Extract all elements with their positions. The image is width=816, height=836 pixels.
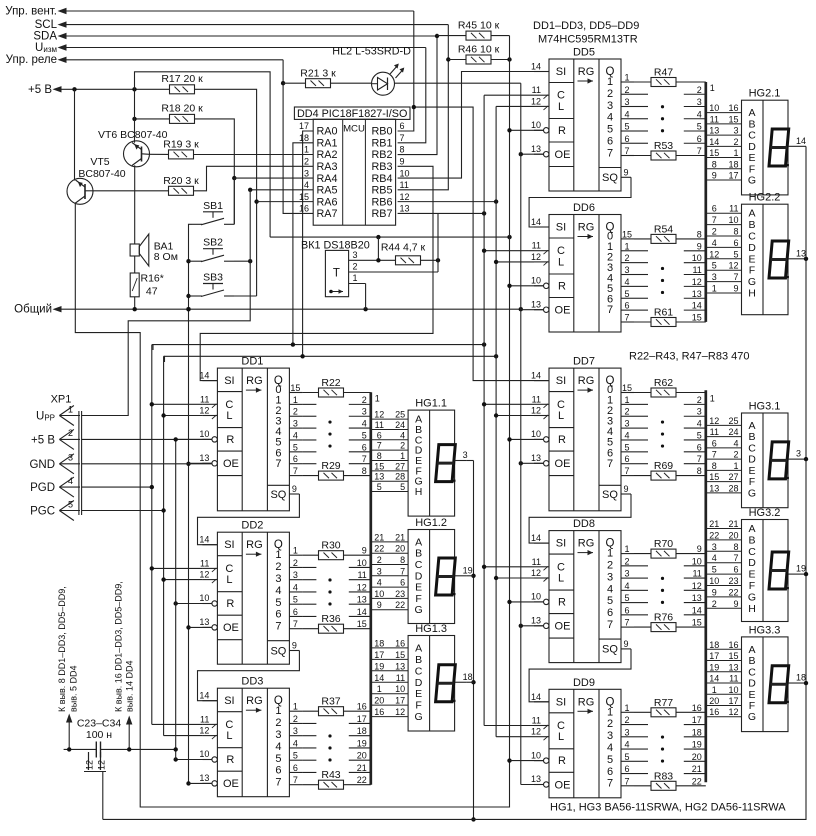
svg-text:R17 20 к: R17 20 к: [161, 73, 203, 85]
svg-text:HG3.1: HG3.1: [749, 401, 781, 413]
resistor R16* 47: [130, 273, 164, 298]
wire R tap: [176, 438, 212, 440]
svg-text:3: 3: [712, 542, 717, 552]
wire Q row stub: [634, 614, 648, 616]
wire segment: [706, 550, 742, 552]
svg-text:3: 3: [607, 100, 613, 112]
svg-text:2: 2: [304, 157, 309, 167]
wire HG1.1 common: [466, 460, 473, 462]
svg-text:8: 8: [697, 466, 702, 476]
wire Q row stub: [634, 130, 648, 132]
capacitors C23-C34 100н: [64, 718, 178, 772]
wire +5V pin to DD1 R: [82, 438, 212, 440]
wire Q row stub: [634, 760, 648, 762]
svg-text:7: 7: [624, 466, 629, 476]
svg-text:SI: SI: [556, 375, 566, 387]
svg-text:1: 1: [275, 549, 281, 561]
wire OE tap: [521, 462, 544, 464]
svg-text:A: A: [415, 642, 422, 654]
svg-text:1: 1: [733, 461, 738, 471]
svg-text:7: 7: [275, 621, 281, 633]
svg-text:7: 7: [607, 304, 613, 316]
svg-text:C: C: [557, 90, 565, 102]
svg-text:RB4: RB4: [371, 173, 392, 185]
wire +5V line: [61, 88, 170, 90]
svg-text:C23–C34: C23–C34: [77, 718, 122, 730]
svg-text:F: F: [749, 700, 755, 712]
wire common pin: [788, 145, 800, 147]
svg-text:3: 3: [733, 126, 738, 136]
svg-text:12: 12: [709, 249, 719, 259]
wire common pin: [455, 460, 467, 462]
resistor R22: [319, 388, 344, 397]
svg-text:1: 1: [304, 145, 309, 155]
svg-text:3: 3: [377, 566, 382, 576]
svg-text:D: D: [748, 454, 756, 466]
svg-text:12: 12: [199, 406, 209, 416]
wire OE tap: [521, 784, 544, 786]
wire R tap: [510, 601, 544, 603]
svg-text:8: 8: [733, 542, 738, 552]
svg-text:8: 8: [712, 159, 717, 169]
wire RB6 to L bus: [398, 201, 497, 203]
svg-text:4: 4: [697, 419, 702, 429]
svg-text:3: 3: [463, 450, 468, 460]
wire RA1 to C rail: [153, 143, 313, 350]
svg-text:9: 9: [697, 544, 702, 554]
svg-text:R16*: R16*: [141, 273, 164, 285]
svg-text:11: 11: [532, 241, 541, 251]
wire Q row stub: [302, 771, 316, 773]
svg-text:5: 5: [400, 482, 405, 492]
wire SB1 to RA4: [233, 223, 235, 225]
svg-text:D: D: [748, 678, 756, 690]
svg-text:17: 17: [357, 714, 367, 724]
svg-text:22: 22: [395, 600, 405, 610]
svg-text:1: 1: [68, 404, 73, 414]
svg-text:18: 18: [709, 640, 719, 650]
svg-text:DD6: DD6: [573, 202, 595, 214]
svg-text:RA4: RA4: [317, 173, 338, 185]
svg-text:13: 13: [531, 774, 541, 784]
svg-text:D: D: [748, 557, 756, 569]
svg-text:8: 8: [400, 555, 405, 565]
svg-text:3: 3: [697, 407, 702, 417]
svg-text:C: C: [415, 559, 423, 571]
wire Q row stub: [634, 577, 648, 579]
wire segment: [371, 491, 408, 493]
svg-text:OE: OE: [555, 305, 571, 317]
wire segment: [371, 597, 408, 599]
wire L tap: [496, 415, 534, 417]
wire Q row stub: [302, 403, 316, 405]
svg-text:21: 21: [692, 764, 702, 774]
svg-text:2: 2: [712, 599, 717, 609]
wire +5V to R18: [135, 118, 170, 120]
resistor R61: [651, 317, 676, 326]
svg-text:SI: SI: [556, 222, 566, 234]
svg-text:10: 10: [531, 276, 541, 286]
svg-text:C: C: [748, 231, 756, 243]
svg-text:3: 3: [796, 449, 801, 459]
wire VT5 base to R20: [93, 190, 169, 192]
svg-text:4: 4: [304, 180, 309, 190]
wire C tap: [484, 94, 534, 96]
svg-text:7: 7: [607, 619, 613, 631]
ellipsis dots: [661, 577, 664, 580]
wire R19 to RA2: [194, 154, 314, 156]
svg-text:R18 20 к: R18 20 к: [161, 103, 203, 115]
svg-text:3: 3: [293, 726, 298, 736]
svg-text:6: 6: [400, 121, 405, 131]
svg-text:10: 10: [199, 749, 209, 759]
wire segment: [371, 658, 408, 660]
wire R tap: [176, 759, 212, 761]
svg-text:1: 1: [353, 273, 358, 283]
svg-text:R22–R43, R47–R83 470: R22–R43, R47–R83 470: [629, 351, 749, 363]
svg-text:17: 17: [728, 171, 738, 181]
svg-text:15: 15: [357, 619, 367, 629]
svg-text:F: F: [749, 580, 755, 592]
svg-text:DD4 PIC18F1827-I/SO: DD4 PIC18F1827-I/SO: [297, 108, 407, 120]
svg-text:R45 10 к: R45 10 к: [458, 20, 500, 32]
svg-text:B: B: [748, 219, 755, 231]
svg-text:RB5: RB5: [371, 185, 392, 197]
wire segment: [706, 246, 742, 248]
svg-text:2: 2: [68, 428, 73, 438]
wire Q row stub: [302, 439, 316, 441]
svg-text:15: 15: [622, 383, 632, 393]
wire HG3.1 common: [800, 458, 807, 460]
wire segment: [706, 424, 742, 426]
svg-text:27: 27: [728, 472, 738, 482]
svg-text:OE: OE: [223, 622, 239, 634]
wire C wrap extension to right C rail: [293, 344, 484, 346]
svg-text:19: 19: [374, 661, 384, 671]
svg-text:R44 4,7 к: R44 4,7 к: [381, 242, 426, 254]
wire HG1.2 common: [466, 575, 473, 577]
svg-text:5: 5: [624, 122, 629, 132]
wire Q row bottom to bus: [634, 321, 651, 323]
wire Q row stub: [634, 262, 648, 264]
svg-text:SB3: SB3: [203, 272, 223, 284]
svg-text:7: 7: [697, 146, 702, 156]
svg-text:DD1–DD3, DD5–DD9: DD1–DD3, DD5–DD9: [533, 20, 639, 32]
svg-text:5: 5: [712, 261, 717, 271]
svg-text:RG: RG: [578, 696, 595, 708]
wire Q row top to bus: [302, 392, 318, 394]
svg-text:6: 6: [624, 605, 629, 615]
svg-text:L: L: [558, 101, 564, 113]
svg-text:14: 14: [199, 371, 209, 381]
wire Q row stub: [634, 565, 648, 567]
svg-text:13: 13: [395, 661, 405, 671]
svg-text:4: 4: [607, 742, 613, 754]
wire +5V vertical rail of registers: [509, 36, 511, 761]
resistor R30: [319, 551, 344, 560]
svg-text:HL2 L-53SRD-D: HL2 L-53SRD-D: [332, 46, 411, 58]
wire L tap: [496, 261, 534, 263]
svg-text:7: 7: [293, 775, 298, 785]
wire Q row top to bus: [302, 710, 318, 712]
svg-text:2: 2: [697, 395, 702, 405]
svg-text:6: 6: [624, 134, 629, 144]
wire R tap: [510, 760, 544, 762]
wire RB3 to DD1 SI: [200, 166, 433, 380]
wire relay node to R21: [283, 82, 305, 84]
wire segment: [706, 469, 742, 471]
svg-text:6: 6: [733, 238, 738, 248]
wire segment: [706, 596, 742, 598]
svg-text:R: R: [558, 596, 566, 608]
svg-text:9: 9: [733, 284, 738, 294]
svg-text:6: 6: [697, 442, 702, 452]
svg-text:R70: R70: [654, 538, 673, 550]
svg-text:9: 9: [712, 171, 717, 181]
wire segment: [371, 647, 408, 649]
svg-text:2: 2: [697, 85, 702, 95]
svg-text:13: 13: [531, 144, 541, 154]
resistor R47: [651, 78, 676, 87]
svg-text:R83: R83: [654, 770, 673, 782]
wire common pin: [788, 258, 800, 260]
wire Q row stub: [634, 297, 648, 299]
wire segment: [706, 528, 742, 530]
svg-text:3: 3: [624, 97, 629, 107]
svg-text:9: 9: [292, 641, 297, 651]
wire segment: [706, 269, 742, 271]
svg-text:C: C: [748, 442, 756, 454]
svg-text:H: H: [415, 486, 423, 498]
wire segment: [371, 693, 408, 695]
svg-text:HG2.2: HG2.2: [749, 192, 781, 204]
svg-text:11: 11: [710, 114, 719, 124]
register DD5 M74HC595: [531, 47, 634, 192]
wire VT6 emitter to +5V: [134, 89, 136, 142]
svg-text:B: B: [415, 654, 422, 666]
wire segment: [706, 705, 742, 707]
svg-text:3: 3: [624, 727, 629, 737]
svg-text:18: 18: [728, 159, 738, 169]
svg-text:6: 6: [293, 763, 298, 773]
svg-text:+5 B: +5 B: [31, 434, 55, 446]
wire segment: [706, 112, 742, 114]
wire segment: [706, 212, 742, 214]
wire segment: [706, 281, 742, 283]
wire Q row top to bus: [634, 711, 651, 713]
svg-text:20: 20: [374, 696, 384, 706]
svg-text:F: F: [415, 700, 421, 712]
svg-text:VT5: VT5: [90, 156, 109, 168]
wire Q row stub: [634, 724, 648, 726]
wire Q row bottom to bus: [634, 155, 651, 157]
wire segment: [706, 436, 742, 438]
wire Q row stub: [302, 463, 316, 465]
svg-text:10: 10: [709, 576, 719, 586]
wire SCL to RB5: [66, 24, 448, 26]
svg-text:RG: RG: [246, 375, 263, 387]
svg-text:7: 7: [733, 272, 738, 282]
svg-text:18: 18: [357, 726, 367, 736]
svg-text:10: 10: [531, 750, 541, 760]
svg-text:SCL: SCL: [35, 19, 58, 31]
svg-text:6: 6: [362, 442, 367, 452]
svg-text:HG3.3: HG3.3: [749, 624, 781, 636]
svg-text:SI: SI: [224, 375, 234, 387]
svg-text:C: C: [748, 130, 756, 142]
svg-text:RB3: RB3: [371, 161, 392, 173]
svg-text:К выв. 8 DD1–DD3, DD5–DD9,: К выв. 8 DD1–DD3, DD5–DD9,: [57, 586, 67, 712]
wire R tap: [510, 285, 544, 287]
svg-text:11: 11: [729, 674, 738, 684]
svg-text:11: 11: [400, 180, 409, 190]
register DD6 M74HC595: [531, 202, 634, 332]
svg-text:D: D: [415, 570, 423, 582]
resistor R83: [651, 781, 676, 790]
svg-text:SI: SI: [556, 538, 566, 550]
svg-text:19: 19: [692, 740, 702, 750]
wire Q row stub: [302, 579, 316, 581]
wire Q row top to bus: [634, 553, 651, 555]
wire Q row stub: [634, 589, 648, 591]
svg-text:SI: SI: [224, 695, 234, 707]
wire R tap: [510, 129, 544, 131]
wire segment: [706, 607, 742, 609]
svg-text:3: 3: [712, 272, 717, 282]
wire L tap: [164, 415, 203, 417]
bus HG2: [704, 82, 707, 322]
ellipsis dots: [328, 420, 331, 423]
svg-text:16: 16: [692, 703, 702, 713]
ellipsis dots: [328, 578, 331, 581]
svg-text:выв. 5 DD4: выв. 5 DD4: [69, 665, 79, 712]
svg-text:13: 13: [199, 453, 209, 463]
svg-text:7: 7: [275, 777, 281, 789]
resistor R36: [319, 624, 344, 633]
svg-text:5: 5: [293, 751, 298, 761]
svg-text:10: 10: [357, 558, 367, 568]
wire segment: [706, 671, 742, 673]
temperature sensor BK1 DS18B20: [301, 240, 438, 297]
svg-text:7: 7: [624, 618, 629, 628]
wire Q row top to bus: [634, 238, 651, 240]
svg-text:10: 10: [374, 589, 384, 599]
svg-text:2: 2: [607, 88, 613, 100]
svg-text:13: 13: [400, 204, 410, 214]
resistor R54: [651, 234, 676, 243]
wire segment: [371, 670, 408, 672]
svg-text:5: 5: [362, 430, 367, 440]
wire cascade SQ to SI: [198, 494, 300, 545]
svg-text:21: 21: [357, 763, 367, 773]
wire segment: [371, 449, 408, 451]
svg-text:R: R: [558, 280, 566, 292]
svg-text:DD7: DD7: [573, 356, 595, 368]
svg-text:1: 1: [607, 706, 613, 718]
svg-text:5: 5: [697, 122, 702, 132]
wire LED to OE rail: [395, 82, 521, 84]
wire segment: [706, 123, 742, 125]
ellipsis dots: [661, 267, 664, 270]
svg-text:B: B: [748, 534, 755, 546]
svg-text:6: 6: [712, 438, 717, 448]
svg-text:10: 10: [531, 429, 541, 439]
svg-text:L: L: [226, 574, 232, 586]
svg-text:11: 11: [200, 714, 209, 724]
wire caps to bottom line: [102, 772, 104, 820]
svg-text:12: 12: [400, 192, 410, 202]
wire VT6 collector to speaker: [134, 165, 136, 244]
svg-text:22: 22: [728, 587, 738, 597]
svg-text:9: 9: [733, 599, 738, 609]
wire RA5 line: [250, 189, 313, 191]
svg-text:15: 15: [374, 461, 384, 471]
svg-text:5: 5: [275, 753, 281, 765]
wire Upp to RA5 net: [81, 190, 250, 416]
svg-text:4: 4: [275, 585, 281, 597]
svg-text:7: 7: [607, 147, 613, 159]
wire HG3.2 common: [800, 573, 807, 575]
wire segment: [706, 179, 742, 181]
svg-text:8: 8: [362, 466, 367, 476]
svg-text:3: 3: [68, 453, 73, 463]
svg-text:8 Ом: 8 Ом: [154, 251, 178, 263]
wire segment: [706, 447, 742, 449]
svg-text:A: A: [748, 420, 755, 432]
svg-text:5: 5: [697, 430, 702, 440]
svg-text:G: G: [748, 487, 756, 499]
wire Q row stub: [302, 415, 316, 417]
svg-text:G: G: [748, 591, 756, 603]
svg-text:20: 20: [395, 544, 405, 554]
wire segment: [371, 541, 408, 543]
svg-text:22: 22: [374, 544, 384, 554]
svg-text:10: 10: [395, 684, 405, 694]
wire segment: [371, 586, 408, 588]
svg-text:22: 22: [692, 776, 702, 786]
svg-text:выв. 14 DD4: выв. 14 DD4: [125, 660, 135, 712]
svg-text:12: 12: [85, 760, 95, 770]
wire Q row bottom to bus: [302, 628, 318, 630]
svg-text:16: 16: [299, 204, 309, 214]
wire segment: [706, 157, 742, 159]
svg-text:8: 8: [733, 227, 738, 237]
wire L tap: [164, 579, 203, 581]
svg-text:17: 17: [709, 651, 719, 661]
wire segment: [371, 439, 408, 441]
svg-text:11: 11: [532, 716, 541, 726]
svg-text:10: 10: [199, 429, 209, 439]
wire common pin: [455, 681, 467, 683]
svg-text:15: 15: [692, 312, 702, 322]
wire Упр. реле to RA7: [66, 59, 283, 61]
svg-text:20: 20: [709, 696, 719, 706]
svg-text:R76: R76: [654, 612, 673, 624]
ellipsis dots: [328, 734, 331, 737]
svg-text:13: 13: [709, 483, 719, 493]
svg-text:DD9: DD9: [573, 677, 595, 689]
wire C tap: [484, 403, 534, 405]
svg-text:14: 14: [357, 607, 367, 617]
wire +5V rail left: [175, 439, 177, 759]
svg-text:L: L: [558, 410, 564, 422]
svg-text:14: 14: [709, 674, 719, 684]
svg-text:6: 6: [607, 136, 613, 148]
svg-text:4: 4: [624, 109, 629, 119]
arrow to pins 8: [68, 717, 70, 749]
wire Q row bottom to bus: [302, 475, 318, 477]
wire R21 to LED: [331, 82, 372, 84]
